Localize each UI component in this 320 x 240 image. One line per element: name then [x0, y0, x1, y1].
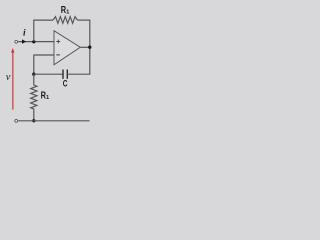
wire: - input to left vertical: [34, 54, 54, 56]
wire: left vertical down to node B: [33, 55, 35, 75]
current arrowhead i (on wire): [22, 39, 26, 43]
resistor R1 (bottom, vertical zigzag with leads): [31, 74, 37, 121]
op-amp plus sign: [56, 41, 60, 43]
op-amp minus sign: [56, 54, 60, 56]
wire: op-amp output to node C: [80, 46, 90, 48]
capacitor C (two plates): [62, 70, 64, 79]
wire: top terminal to op-amp + input: [18, 41, 54, 43]
resistor R1 (top, zigzag): [53, 17, 78, 24]
wire: right vertical from top rail to capacitor rail: [89, 20, 91, 75]
wire: node B to capacitor left plate: [34, 73, 63, 75]
node B (junction dot): [32, 73, 35, 76]
terminal T2 (bottom, open circle): [15, 120, 18, 123]
wire: riser from node A to top rail: [33, 20, 35, 42]
svg-text:C: C: [63, 79, 68, 89]
node A (junction dot): [32, 40, 35, 43]
node D (bottom junction dot): [32, 119, 35, 122]
terminal T1 (top input, open circle): [15, 40, 18, 43]
op-amp U1 (triangle): [54, 31, 80, 65]
voltage arrow v (red, pointing up): [12, 52, 14, 109]
node C (output junction dot): [88, 46, 91, 49]
background: [0, 0, 106, 135]
wire: top rail right segment: [78, 19, 90, 21]
svg-text:v: v: [6, 72, 11, 83]
wire: top rail left segment: [33, 19, 53, 21]
svg-text:i: i: [23, 29, 26, 39]
wire: bottom rail: [18, 120, 89, 122]
wire: capacitor right plate to right vertical: [67, 73, 90, 75]
